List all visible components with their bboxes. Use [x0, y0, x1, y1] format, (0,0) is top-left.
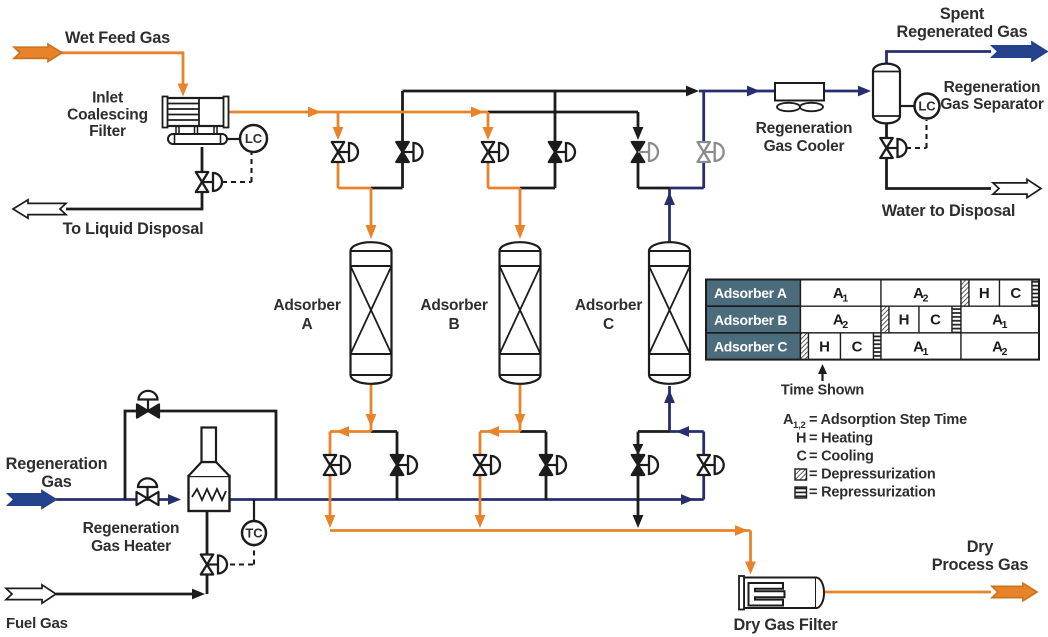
- svg-text:2: 2: [923, 292, 929, 304]
- svg-text:H: H: [819, 338, 830, 355]
- svg-text:Water to Disposal: Water to Disposal: [882, 202, 1016, 220]
- svg-text:Inlet: Inlet: [92, 90, 123, 107]
- svg-text:Adsorber: Adsorber: [575, 297, 642, 314]
- svg-text:= Heating: = Heating: [809, 431, 873, 447]
- svg-text:Fuel Gas: Fuel Gas: [6, 615, 68, 632]
- svg-text:C: C: [1010, 285, 1021, 302]
- svg-text:Spent: Spent: [940, 5, 985, 23]
- svg-text:H: H: [979, 285, 990, 302]
- svg-text:Gas Separator: Gas Separator: [940, 96, 1044, 113]
- svg-text:= Depressurization: = Depressurization: [809, 467, 936, 483]
- svg-text:1: 1: [923, 346, 929, 358]
- svg-text:Regeneration: Regeneration: [83, 520, 180, 537]
- svg-text:Filter: Filter: [89, 123, 126, 140]
- svg-text:Gas: Gas: [41, 473, 71, 491]
- svg-text:2: 2: [1002, 346, 1008, 358]
- svg-text:Adsorber A: Adsorber A: [714, 285, 787, 301]
- svg-text:Time Shown: Time Shown: [781, 383, 864, 399]
- svg-text:Dry: Dry: [967, 538, 994, 556]
- svg-text:Regeneration: Regeneration: [6, 455, 108, 473]
- svg-text:Gas Heater: Gas Heater: [91, 538, 171, 555]
- svg-text:TC: TC: [245, 526, 263, 541]
- svg-text:= Cooling: = Cooling: [809, 449, 874, 465]
- svg-text:A: A: [302, 316, 313, 333]
- svg-text:C: C: [797, 449, 808, 465]
- svg-text:H: H: [899, 312, 910, 329]
- svg-text:= Repressurization: = Repressurization: [809, 485, 936, 501]
- svg-text:Gas Cooler: Gas Cooler: [764, 138, 845, 155]
- svg-text:1: 1: [1002, 319, 1008, 331]
- svg-text:LC: LC: [245, 131, 263, 146]
- svg-text:C: C: [852, 338, 863, 355]
- svg-text:Adsorber: Adsorber: [273, 297, 340, 314]
- svg-text:Dry Gas Filter: Dry Gas Filter: [734, 616, 839, 634]
- svg-text:Adsorber B: Adsorber B: [714, 312, 787, 328]
- svg-text:C: C: [930, 312, 941, 329]
- svg-text:1: 1: [842, 292, 848, 304]
- svg-text:Process Gas: Process Gas: [932, 556, 1029, 574]
- svg-text:Regeneration: Regeneration: [756, 120, 853, 137]
- svg-text:To Liquid Disposal: To Liquid Disposal: [63, 220, 204, 238]
- svg-text:B: B: [449, 316, 460, 333]
- svg-text:Coalescing: Coalescing: [67, 107, 148, 124]
- svg-text:= Adsorption Step Time: = Adsorption Step Time: [809, 412, 967, 428]
- svg-text:Regeneration: Regeneration: [944, 79, 1041, 96]
- svg-text:C: C: [603, 316, 614, 333]
- svg-text:Regenerated Gas: Regenerated Gas: [897, 23, 1028, 41]
- svg-text:Adsorber C: Adsorber C: [714, 338, 787, 354]
- svg-text:1,2: 1,2: [793, 420, 806, 431]
- svg-text:Adsorber: Adsorber: [420, 297, 487, 314]
- svg-text:H: H: [796, 431, 806, 447]
- svg-text:LC: LC: [918, 99, 936, 114]
- svg-text:Wet Feed Gas: Wet Feed Gas: [65, 29, 170, 47]
- svg-text:2: 2: [842, 319, 848, 331]
